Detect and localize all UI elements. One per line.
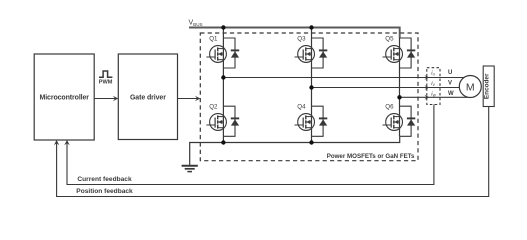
wire phase V output [312, 87, 471, 89]
current sense arrow i_W [425, 95, 430, 100]
svg-text:M: M [466, 81, 475, 93]
transistor Q1 [206, 46, 226, 63]
svg-text:VBUS: VBUS [189, 20, 203, 28]
transistor Q6 [383, 114, 403, 131]
wire phase W output [400, 96, 471, 98]
wire current feedback [64, 105, 434, 185]
current sense arrow i_V [425, 85, 430, 90]
body diode of Q4 [312, 106, 328, 136]
node V (Q3 source / Q4 drain) [309, 85, 313, 89]
body diode of Q3 [312, 38, 328, 68]
svg-text:iV: iV [431, 81, 435, 87]
node U (Q1 source / Q2 drain) [221, 75, 225, 79]
PWM pulse waveform symbol [99, 71, 112, 77]
svg-text:iU: iU [431, 71, 435, 77]
ground [182, 166, 198, 172]
svg-text:PWM: PWM [99, 80, 113, 86]
body diode of Q1 [223, 38, 239, 68]
encoder [483, 66, 494, 107]
svg-text:W: W [448, 91, 454, 97]
wire half-bridge V drain-source column [311, 28, 313, 143]
wire PWM: microcontroller to gate driver [94, 96, 118, 102]
svg-text:Q5: Q5 [385, 36, 394, 43]
body diode of Q5 [400, 38, 416, 68]
svg-text:Current feedback: Current feedback [77, 176, 132, 183]
svg-text:Q1: Q1 [209, 36, 218, 43]
svg-text:Power MOSFETs or GaN FETs: Power MOSFETs or GaN FETs [327, 153, 415, 160]
junction ground / Q4 source [309, 140, 313, 144]
wire half-bridge U drain-source column [222, 28, 224, 143]
wire: gate driver to power stage [178, 96, 201, 102]
transistor Q3 [295, 46, 315, 63]
svg-text:Encoder: Encoder [484, 73, 491, 99]
motor M [459, 76, 481, 98]
transistor Q2 [206, 114, 226, 131]
wire position feedback [54, 107, 489, 197]
power stage dashed enclosure [200, 33, 418, 161]
transistor Q5 [383, 46, 403, 63]
microcontroller block [34, 54, 94, 140]
body diode of Q6 [400, 106, 416, 136]
svg-text:Position feedback: Position feedback [76, 188, 133, 195]
wire phase U output [223, 77, 470, 79]
svg-text:V: V [448, 81, 452, 87]
svg-text:Q3: Q3 [297, 36, 306, 43]
wire half-bridge W drain-source column [399, 38, 401, 136]
junction V_BUS / Q1 drain [221, 25, 225, 29]
svg-text:iW: iW [431, 92, 436, 98]
node W (Q5 source / Q6 drain) [397, 95, 401, 99]
svg-text:Q2: Q2 [209, 104, 218, 111]
svg-text:U: U [448, 70, 452, 76]
current sensor dashed box [427, 68, 440, 105]
svg-text:Q4: Q4 [297, 104, 306, 111]
svg-text:Gate driver: Gate driver [130, 95, 166, 102]
junction ground / Q2 source [221, 140, 225, 144]
junction V_BUS / Q3 drain [309, 25, 313, 29]
gate driver block [118, 54, 177, 140]
current sense arrow i_U [425, 75, 430, 80]
transistor Q4 [295, 114, 315, 131]
wire V_BUS rail [189, 28, 400, 39]
body diode of Q2 [223, 106, 239, 136]
svg-text:Microcontroller: Microcontroller [39, 95, 89, 102]
svg-text:Q6: Q6 [385, 104, 394, 111]
wire ground rail [190, 136, 400, 165]
